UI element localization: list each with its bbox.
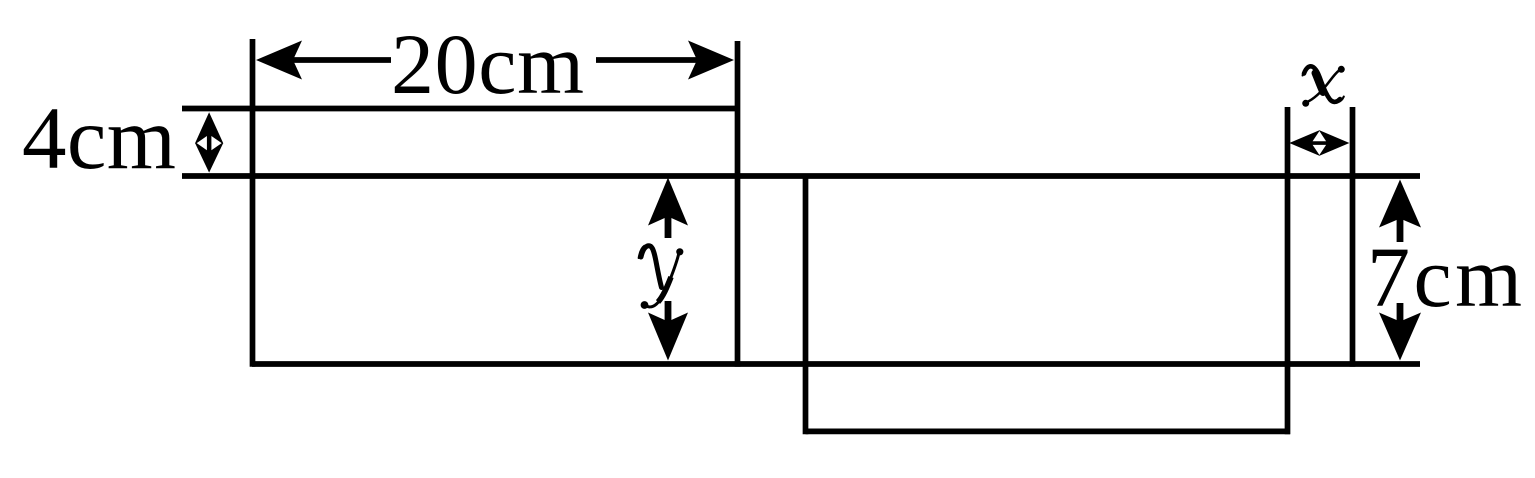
double arrowhead: 4cm dimension (diamond) [195,112,223,172]
wire: 7cm arrow upper shaft [1397,217,1404,242]
arrowhead: 20cm right [688,41,734,80]
double arrowhead: x dimension (diamond) [1289,130,1349,156]
wire: right vertical edge of left rectangle (x=737.5) [735,41,741,367]
wire: 20cm right shaft [596,57,698,63]
arrowhead: 20cm left [256,41,302,80]
wire: y arrow upper shaft [665,215,672,238]
notch: x lower white triangle [1313,145,1327,155]
notch: x upper white triangle [1313,131,1327,141]
label: x (math italic, custom drawn) [1302,66,1345,107]
arrowhead: 7cm down [1379,313,1421,361]
wire: bottom edge of right rectangle (y=430.5) [806,429,1291,435]
svg-text:20cm: 20cm [391,16,584,112]
arrowhead: y up [648,178,688,226]
wire: right extension tick (x=1352.5) [1350,107,1356,367]
wire: 20cm left shaft [292,57,391,63]
arrowhead: 7cm up [1379,180,1421,228]
arrowhead: y down [648,313,688,361]
svg-text:7cm: 7cm [1367,229,1522,325]
svg-text:4cm: 4cm [22,90,176,188]
wire: long horizontal line (y=364) [252,361,1420,367]
wire: y arrow lower shaft [665,301,672,322]
wire: left vertical edge of left rectangle (x=252.5) [250,39,256,367]
wire: top edge of upper-left rectangle (y=108) [182,106,739,112]
notch: 4cm left white triangle [197,136,207,150]
wire: left vertical edge of right rectangle (x=805.5) [803,176,809,434]
wire: long horizontal line (y=176) [182,173,1420,179]
wire: right vertical edge of right rectangle (x=1287.5) [1285,107,1291,434]
notch: 4cm right white triangle [211,136,221,150]
label: y (math italic, custom drawn) [639,246,684,309]
wire: 7cm arrow lower shaft [1397,303,1404,322]
